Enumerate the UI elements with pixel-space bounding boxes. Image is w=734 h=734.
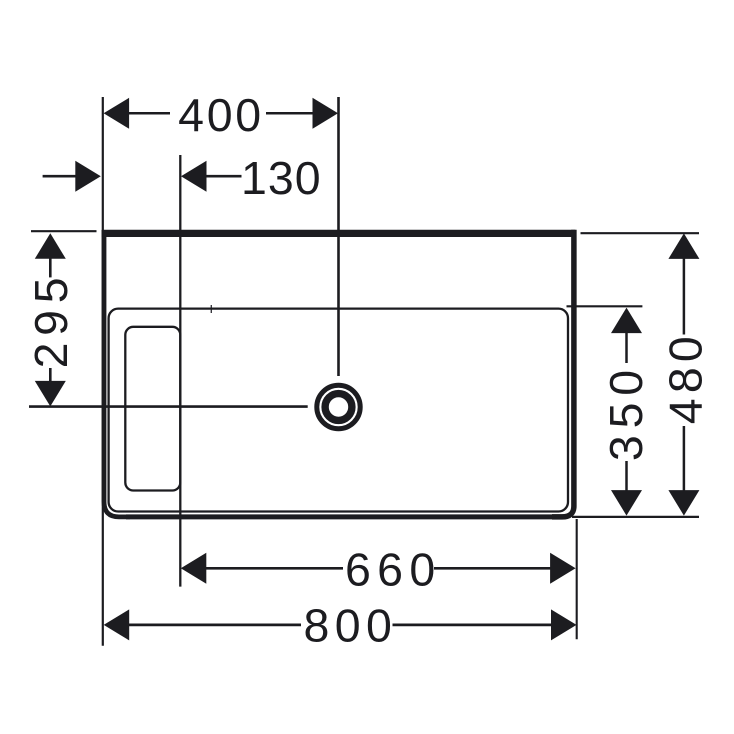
dimension 660 arrow left <box>181 553 207 584</box>
dimension 130 tail line left <box>43 175 77 178</box>
svg-text:660: 660 <box>345 544 442 596</box>
svg-text:480: 480 <box>659 331 711 424</box>
dimension 350 line upper <box>625 332 628 363</box>
dimension 130 line <box>205 175 242 178</box>
dimension 660 line left <box>205 567 343 570</box>
dimension 350 label <box>600 363 652 461</box>
faucet hole outer ring <box>317 385 360 428</box>
dimension 400 line left <box>128 112 170 115</box>
dimension 660 arrow right <box>550 553 576 584</box>
dimension 295 arrow down <box>35 381 66 407</box>
dimension 800 line left <box>128 624 301 627</box>
svg-text:130: 130 <box>241 152 322 204</box>
svg-text:800: 800 <box>304 599 398 651</box>
extension line 295 top <box>31 230 97 232</box>
svg-text:350: 350 <box>600 363 652 461</box>
extension line 350/480 bottom <box>572 516 699 518</box>
dimension 480 label <box>659 331 711 424</box>
shelf ledge rounded rectangle <box>125 327 180 491</box>
center line vertical of faucet hole <box>337 97 340 376</box>
faucet hole inner ring <box>325 394 352 421</box>
dimension 480 arrow down <box>668 490 699 515</box>
dimension 130 arrow pointing left <box>181 161 207 192</box>
dimension 660 line right <box>434 567 551 570</box>
extension line 480 top <box>581 232 700 234</box>
dimension 130 arrow pointing right <box>75 161 101 192</box>
svg-text:295: 295 <box>25 271 77 369</box>
dimension 800 label <box>304 599 398 651</box>
dimension 400 arrow right <box>313 98 339 129</box>
dimension 400 line right <box>266 112 314 115</box>
dimension 350 arrow up <box>611 308 642 334</box>
center line horizontal of faucet hole / 295 bottom extension <box>29 405 308 408</box>
svg-text:400: 400 <box>178 89 264 141</box>
extension line 660/800 right (x=576.7) <box>576 519 578 639</box>
dimension 295 line upper <box>49 258 52 278</box>
extension line 350 top <box>567 305 643 307</box>
dimension 480 line lower <box>683 426 686 491</box>
basin outer bottom edge <box>126 514 564 519</box>
basin outer top edge <box>102 230 576 237</box>
basin outer left edge with rounded bottom-left corner <box>104 230 130 517</box>
extension line 130/660 (x=180.3) <box>179 155 181 587</box>
dimension 130 label <box>241 152 322 204</box>
dimension 800 line right <box>393 624 552 627</box>
dimension 350 arrow down <box>611 490 642 515</box>
extension line left (x=102.8) <box>102 97 104 646</box>
dimension 295 line lower <box>49 368 52 382</box>
basin outer right edge with rounded bottom-right corner <box>552 230 574 517</box>
dimension 660 label <box>345 544 442 596</box>
dimension 400 arrow left <box>104 98 130 129</box>
dimension 295 label <box>25 271 77 369</box>
dimension 295 arrow up <box>35 233 66 258</box>
dimension 480 arrow up <box>668 233 699 259</box>
basin inner rim <box>109 309 568 512</box>
dimension 350 line lower <box>625 461 628 491</box>
dimension 480 line upper <box>683 257 686 334</box>
dimension 800 arrow right <box>551 609 577 640</box>
dimension 800 arrow left <box>104 609 130 640</box>
dimension 400 label <box>178 89 264 141</box>
registration tick on inner rim <box>210 305 212 313</box>
